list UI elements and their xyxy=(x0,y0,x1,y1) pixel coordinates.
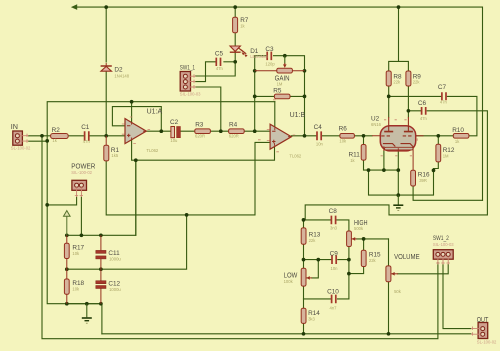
wire cathode pins xyxy=(384,151,398,195)
capacitor C7 xyxy=(442,92,446,100)
op-amp U1:B xyxy=(270,124,291,149)
capacitor C9 xyxy=(332,255,336,264)
LED D1 xyxy=(230,46,240,51)
connector SW1_2 xyxy=(433,250,453,260)
wire C10 line xyxy=(304,298,349,300)
svg-text:C1: C1 xyxy=(81,124,90,131)
wire R15 leads xyxy=(349,239,364,274)
capacitor C10 xyxy=(332,295,336,304)
connector IN xyxy=(13,131,23,145)
wire U1:A top pin xyxy=(131,102,133,123)
supply arrow mid left xyxy=(64,211,71,236)
svg-text:1000u: 1000u xyxy=(109,287,121,292)
svg-text:1M: 1M xyxy=(277,81,283,86)
svg-text:C7: C7 xyxy=(438,84,447,91)
connector POWER xyxy=(72,180,87,190)
svg-text:39R: 39R xyxy=(419,178,427,183)
resistor R9 xyxy=(406,71,411,86)
resistor R4 xyxy=(229,129,245,134)
capacitor C2 polarized xyxy=(171,127,175,138)
svg-text:C8: C8 xyxy=(329,208,338,215)
svg-text:C9: C9 xyxy=(330,250,339,257)
svg-text:SW1_1: SW1_1 xyxy=(180,65,196,72)
svg-text:10k: 10k xyxy=(72,287,80,292)
wire R2 C1 xyxy=(68,135,84,137)
svg-text:47n: 47n xyxy=(216,66,224,71)
wire SW1_2 pin2 to OUT xyxy=(443,265,471,329)
ground symbol bottom left xyxy=(86,304,88,318)
wire D2 branch top xyxy=(105,7,107,62)
wire GAIN left vertical xyxy=(254,56,256,132)
resistor R3 xyxy=(195,129,211,134)
svg-text:50k: 50k xyxy=(394,289,402,294)
svg-text:SIL-100-02: SIL-100-02 xyxy=(71,170,92,175)
wire bias divider line y269 xyxy=(67,215,187,269)
resistor R12 xyxy=(436,144,441,162)
connector OUT xyxy=(478,323,488,339)
svg-text:R3: R3 xyxy=(195,121,204,128)
resistor R16 xyxy=(411,170,416,186)
resistor R1 xyxy=(104,145,109,161)
wire R14 leads xyxy=(303,299,305,334)
svg-text:R2: R2 xyxy=(52,127,61,134)
wire R8 R9 branch xyxy=(389,7,409,71)
svg-text:R4: R4 xyxy=(229,121,238,128)
wire SW1_1 pin3 down xyxy=(196,87,221,131)
capacitor C4 xyxy=(317,131,321,140)
wire ground line y303 xyxy=(67,304,102,334)
wire U1:A Vminus pin xyxy=(132,140,275,160)
wire SW1_1 pin2 to C5 xyxy=(196,62,216,82)
capacitor C5 xyxy=(216,58,220,66)
resistor R13 xyxy=(301,228,306,244)
svg-text:10n: 10n xyxy=(331,266,339,271)
svg-text:R6: R6 xyxy=(339,126,348,133)
potentiometer HIGH xyxy=(347,231,352,247)
svg-text:10k: 10k xyxy=(339,139,347,144)
svg-text:3n3: 3n3 xyxy=(330,226,338,231)
wire R13 bottom node xyxy=(303,244,305,268)
capacitor C12 polarized xyxy=(100,269,102,304)
wire GAIN top xyxy=(255,56,305,71)
resistor R2 xyxy=(51,134,69,139)
capacitor C3 xyxy=(267,52,271,61)
svg-text:1N4148: 1N4148 xyxy=(114,73,129,78)
svg-text:C10: C10 xyxy=(327,289,339,296)
wire Vplus vertical x136 xyxy=(135,160,137,235)
wire rail 101 xyxy=(47,102,275,304)
wire IN upper lead xyxy=(29,135,51,137)
svg-text:22k: 22k xyxy=(369,258,377,263)
junction dots xyxy=(104,5,108,9)
svg-text:LED3MM: LED3MM xyxy=(250,54,268,59)
svg-text:SL-100-02: SL-100-02 xyxy=(477,339,497,344)
svg-text:C5: C5 xyxy=(215,51,224,58)
wire grid2 line R10 xyxy=(416,135,454,137)
wire U1:B output chain xyxy=(291,135,372,137)
diode D2 xyxy=(105,63,107,71)
wire R11 grid node xyxy=(363,136,365,145)
svg-text:C3: C3 xyxy=(265,46,274,53)
op-amp U1:A xyxy=(125,119,146,144)
svg-text:620R: 620R xyxy=(229,134,239,139)
svg-text:D2: D2 xyxy=(114,66,123,73)
wire HIGH wiper line xyxy=(356,238,389,240)
svg-text:OUT: OUT xyxy=(477,315,489,324)
svg-text:C2: C2 xyxy=(170,119,179,126)
pin marks various xyxy=(122,100,417,156)
wire U1:A output chain xyxy=(146,130,270,132)
wire C9 line xyxy=(304,259,349,261)
potentiometer GAIN xyxy=(277,68,293,73)
svg-text:SIL-100-03: SIL-100-03 xyxy=(180,92,201,97)
wire supply branch y235 xyxy=(67,160,136,235)
wire R9 to C6 line xyxy=(407,86,409,117)
wire plate1 pin upper xyxy=(388,86,390,117)
svg-text:500k: 500k xyxy=(354,226,364,231)
svg-text:22k: 22k xyxy=(393,80,401,85)
capacitor C11 polarized xyxy=(100,235,102,269)
potentiometer LOW xyxy=(301,268,306,286)
wire VOLUME top xyxy=(388,239,390,266)
svg-text:22k: 22k xyxy=(309,238,317,243)
resistor R5 xyxy=(274,94,290,99)
svg-text:TL062: TL062 xyxy=(146,148,159,153)
resistor R8 xyxy=(386,71,391,86)
svg-text:TL062: TL062 xyxy=(289,153,302,158)
svg-text:IN: IN xyxy=(11,122,18,131)
resistor R10 xyxy=(453,134,469,139)
svg-text:47n: 47n xyxy=(83,139,91,144)
svg-text:47n: 47n xyxy=(440,100,448,105)
svg-text:1000u: 1000u xyxy=(109,256,121,261)
wire U1:B top pin xyxy=(274,102,276,127)
svg-text:SL-100-02: SL-100-02 xyxy=(11,146,31,151)
svg-text:3k3: 3k3 xyxy=(308,317,315,322)
valve U2 grid stubs xyxy=(372,135,424,137)
wire R12 top xyxy=(437,136,439,145)
svg-text:1k5: 1k5 xyxy=(111,153,118,158)
svg-text:620R: 620R xyxy=(195,134,205,139)
svg-text:U1:A: U1:A xyxy=(147,106,163,115)
wire C7 line plate1 xyxy=(389,96,477,135)
svg-text:R5: R5 xyxy=(273,88,282,95)
wire VOLUME bottom xyxy=(388,282,390,334)
supply arrow top left xyxy=(71,4,77,10)
svg-text:VOLUME: VOLUME xyxy=(394,252,420,261)
svg-text:SIL-100-03: SIL-100-03 xyxy=(433,242,454,247)
capacitor C8 xyxy=(331,216,335,225)
wire R7 to LED xyxy=(234,33,236,47)
wire C5 right xyxy=(224,61,235,63)
svg-text:22k: 22k xyxy=(413,80,421,85)
wire ground branch left xyxy=(369,170,434,195)
resistor R14 xyxy=(301,308,306,323)
valve U2 xyxy=(380,126,415,151)
wire IN lower lead xyxy=(29,140,48,142)
wire C8 line xyxy=(304,220,349,231)
wire D2 to C1 node xyxy=(105,72,107,136)
wire C6 line to tone stack xyxy=(305,111,487,220)
capacitor C6 xyxy=(422,107,426,115)
wire C1 to opamp xyxy=(90,135,125,137)
svg-text:4n7: 4n7 xyxy=(330,306,338,311)
svg-text:1M: 1M xyxy=(443,154,449,159)
wire LOW wiper vertical xyxy=(312,260,319,278)
wire POWER pin2 down xyxy=(80,197,82,235)
ground symbol near valve xyxy=(397,195,399,204)
wire tone stack node dot to R13 xyxy=(303,220,305,228)
svg-text:R10: R10 xyxy=(452,127,464,134)
resistor R7 xyxy=(233,17,238,33)
svg-text:C6: C6 xyxy=(418,100,427,107)
wire R12 bottom jog xyxy=(434,162,439,171)
wire LOW bottom xyxy=(303,286,305,299)
wire IN bypass vertical xyxy=(42,136,438,339)
potentiometer VOLUME xyxy=(386,266,391,282)
svg-text:C4: C4 xyxy=(314,124,323,131)
wire U1:A feedback loop xyxy=(112,107,161,132)
resistor R18 xyxy=(64,279,69,294)
wire VOLUME wiper to SW1_2 pin3 xyxy=(398,265,449,274)
wire R16 bottom return xyxy=(413,186,482,200)
svg-text:U1:B: U1:B xyxy=(290,110,306,119)
wire R1 bottom to bias rail xyxy=(106,142,270,215)
wire R5 line xyxy=(255,95,305,97)
resistor R6 xyxy=(340,134,355,139)
svg-text:6N16: 6N16 xyxy=(371,122,382,127)
capacitor C1 xyxy=(85,131,89,141)
svg-text:47n: 47n xyxy=(420,116,428,121)
resistor R17 xyxy=(64,243,69,258)
wire HIGH bottom vertical xyxy=(348,246,350,299)
wire bottom rail1 xyxy=(102,333,471,335)
svg-text:10u: 10u xyxy=(170,138,178,143)
resistor R15 xyxy=(361,250,366,266)
connector SW1_1 xyxy=(180,72,190,92)
svg-text:10n: 10n xyxy=(316,142,324,147)
svg-text:10k: 10k xyxy=(72,251,80,256)
svg-text:120p: 120p xyxy=(265,61,275,66)
wire R11 bottom to cathode line xyxy=(364,160,399,170)
wire R7 branch xyxy=(234,7,236,17)
wire SW1_1 pin1 xyxy=(196,62,236,76)
wire LED to C5 node xyxy=(234,52,236,62)
wire top rail xyxy=(77,7,483,200)
wire GAIN right vertical to output xyxy=(304,71,306,136)
wire POWER pin1 to ground xyxy=(47,197,76,205)
resistor R11 xyxy=(361,145,366,161)
svg-text:100k: 100k xyxy=(284,279,294,284)
